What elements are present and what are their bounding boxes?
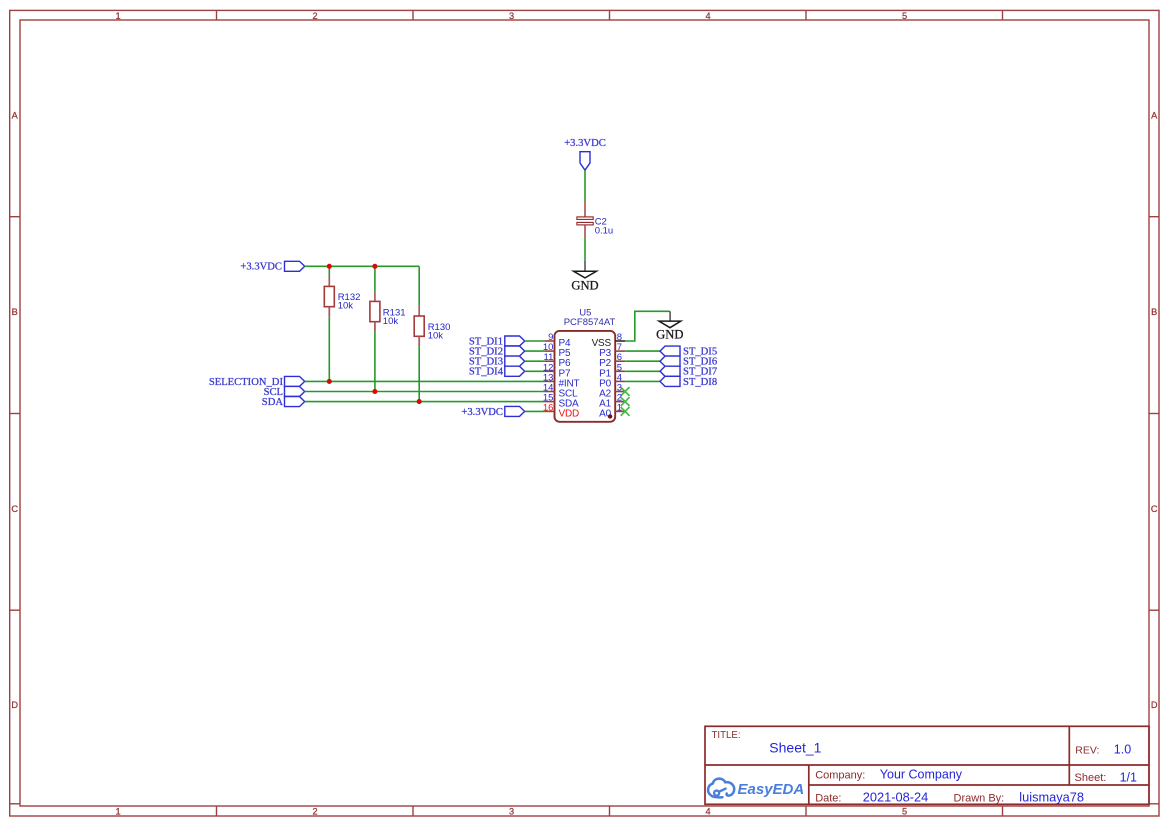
wire ST_DI4 to U5 pin 12 [525, 370, 545, 372]
wire +3.3VDC rail [305, 265, 420, 267]
wire SELECTION_DI to U5 pin 13 [305, 380, 545, 382]
svg-text:D: D [11, 700, 18, 710]
svg-text:3: 3 [509, 11, 514, 21]
junction (rail / R132) [327, 264, 332, 269]
svg-text:luismaya78: luismaya78 [1019, 790, 1084, 805]
svg-text:0.1u: 0.1u [595, 226, 614, 237]
wire R132 to SELECTION_DI net [328, 317, 330, 382]
wire SCL to U5 pin 14 [305, 391, 545, 393]
pin 12 (P7) [543, 362, 571, 379]
svg-text:3: 3 [509, 807, 514, 817]
wire ST_DI2 to U5 pin 10 [525, 350, 545, 352]
svg-text:10k: 10k [338, 301, 354, 312]
wire rail to R132 [328, 266, 330, 276]
wire rail corner to R130 [418, 266, 420, 306]
wire U5 P0 to ST_DI8 [625, 380, 660, 382]
svg-text:16: 16 [543, 402, 554, 413]
svg-text:1: 1 [115, 807, 120, 817]
net port ST_DI3 [469, 356, 525, 368]
svg-text:PCF8574AT: PCF8574AT [564, 317, 616, 328]
net port ST_DI5 [660, 346, 717, 357]
svg-text:1: 1 [115, 11, 120, 21]
EasyEDA logo (decorative) [708, 779, 734, 798]
svg-text:SDA: SDA [262, 397, 284, 408]
net port SCL [264, 386, 305, 398]
wire R131 to SCL net [374, 332, 376, 392]
wire R130 to SDA net [418, 346, 420, 402]
pin 2 (A1) no-connect [599, 393, 629, 410]
net port ST_DI2 [469, 346, 525, 358]
svg-text:B: B [1151, 307, 1157, 317]
pin 7 (P3) [599, 342, 625, 359]
svg-text:2: 2 [312, 11, 317, 21]
svg-text:A: A [12, 110, 19, 120]
svg-text:Sheet_1: Sheet_1 [769, 739, 821, 755]
svg-text:Company:: Company: [815, 769, 865, 781]
svg-text:B: B [12, 307, 18, 317]
pin 1 (A0) no-connect [599, 402, 629, 419]
power flag +3.3VDC (U5 VDD) [461, 406, 524, 417]
svg-text:10k: 10k [383, 316, 399, 327]
pin 13 (#INT) [543, 372, 580, 389]
svg-text:GND: GND [656, 328, 683, 342]
svg-text:Drawn By:: Drawn By: [954, 793, 1005, 805]
ground GND (below C2) [571, 261, 598, 293]
svg-text:Date:: Date: [815, 793, 841, 805]
net port SDA [262, 397, 305, 409]
wire U5 P1 to ST_DI7 [625, 370, 660, 372]
svg-text:C: C [1151, 504, 1158, 514]
svg-text:EasyEDA: EasyEDA [738, 781, 805, 798]
net port ST_DI4 [469, 366, 525, 378]
pin 4 (P0) [599, 372, 625, 389]
pin 11 (P6) [544, 352, 571, 369]
power flag +3.3VDC (top of C2) [564, 138, 606, 170]
wire C2 pin 2 to GND [584, 237, 586, 260]
wire U5 VSS to GND [625, 311, 670, 341]
wire +3.3VDC to U5 pin 16 [525, 410, 545, 412]
svg-text:VDD: VDD [559, 408, 580, 419]
svg-text:C: C [11, 504, 18, 514]
wire SDA to U5 pin 15 [305, 401, 545, 403]
wire +3.3VDC to C2 pin 1 [584, 170, 586, 201]
svg-text:1/1: 1/1 [1120, 770, 1137, 784]
ground GND (U5 VSS) [656, 311, 683, 341]
resistor R130 10k [414, 306, 450, 346]
net port ST_DI6 [660, 356, 717, 368]
pin 10 (P5) [543, 342, 571, 359]
wire U5 P2 to ST_DI6 [625, 360, 660, 362]
junction dot (inside U5 near A0 pin 1) [608, 414, 612, 418]
svg-text:ST_DI4: ST_DI4 [469, 367, 504, 378]
svg-text:4: 4 [705, 11, 710, 21]
net port SELECTION_DI [209, 376, 305, 387]
pin 5 (P1) [599, 362, 625, 379]
junction (rail / R131) [372, 264, 377, 269]
junction (R131 / SCL) [372, 389, 377, 394]
pin 15 (SDA) [543, 393, 579, 410]
svg-text:TITLE:: TITLE: [712, 730, 741, 741]
svg-text:+3.3VDC: +3.3VDC [240, 262, 282, 273]
svg-text:D: D [1151, 700, 1158, 710]
svg-text:+3.3VDC: +3.3VDC [564, 138, 606, 149]
net port ST_DI1 [469, 336, 525, 347]
wire ST_DI1 to U5 pin 9 [525, 340, 545, 342]
title block (decorative) [705, 726, 1149, 804]
svg-text:REV:: REV: [1075, 744, 1099, 756]
svg-text:2: 2 [312, 807, 317, 817]
resistor R132 10k [324, 277, 360, 317]
pin 3 (A2) no-connect [599, 383, 629, 400]
pin 8 (VSS) [592, 332, 626, 349]
pin 16 (VDD) [543, 402, 579, 419]
svg-text:Your Company: Your Company [880, 768, 963, 782]
power flag +3.3VDC (resistor rail, left) [240, 261, 304, 272]
resistor R131 10k [370, 292, 406, 332]
svg-text:GND: GND [571, 278, 598, 292]
svg-text:2021-08-24: 2021-08-24 [863, 790, 928, 805]
pin 9 (P4) [545, 332, 571, 349]
pin 6 (P2) [599, 352, 625, 369]
svg-text:5: 5 [902, 11, 907, 21]
wire U5 P3 to ST_DI5 [625, 350, 660, 352]
svg-text:5: 5 [902, 807, 907, 817]
svg-text:10k: 10k [428, 331, 444, 342]
junction (R130 / SDA) [417, 399, 422, 404]
capacitor C2 0.1u [577, 202, 613, 238]
net port ST_DI8 [660, 376, 717, 388]
IC U5 PCF8574AT body [555, 307, 616, 422]
svg-text:Sheet:: Sheet: [1075, 772, 1107, 784]
wire ST_DI3 to U5 pin 11 [525, 360, 545, 362]
wire rail to R131 [374, 266, 376, 291]
svg-text:1.0: 1.0 [1114, 742, 1131, 756]
svg-text:4: 4 [705, 807, 710, 817]
net port ST_DI7 [660, 366, 717, 378]
svg-text:A: A [1151, 110, 1158, 120]
svg-text:ST_DI8: ST_DI8 [683, 377, 717, 388]
pin 14 (SCL) [543, 383, 578, 400]
svg-text:+3.3VDC: +3.3VDC [461, 407, 503, 418]
junction (R132 / SELECTION_DI) [327, 379, 332, 384]
